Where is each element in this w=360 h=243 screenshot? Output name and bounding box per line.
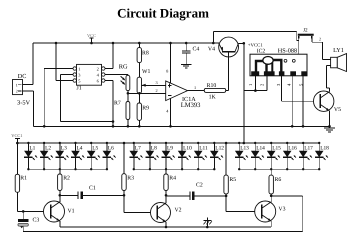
resistor R3 [122,143,134,195]
svg-text:R2: R2 [63,176,70,182]
resistor R10 1K [204,83,225,101]
LED L18 [315,143,329,169]
junction R5 at supply rail [225,142,228,145]
svg-text:J2: J2 [303,27,308,33]
wire: R3 node down to V2 base [124,195,151,212]
svg-text:HS-088: HS-088 [278,47,297,54]
wire: cathode rail group 1 [28,168,107,170]
svg-text:R3: R3 [127,176,134,182]
label IC2 pin numbers [248,83,303,86]
junction L2 anode at supply rail [43,142,45,144]
LED L14 [251,143,265,169]
resistor R7 [114,93,130,126]
junction L15 anode at supply rail [270,142,272,144]
svg-text:1: 1 [16,83,18,88]
svg-text:L4: L4 [77,145,83,151]
junction C3 tap on V1 base line [22,210,25,213]
svg-text:L15: L15 [272,145,281,151]
transistor V5 NPN [314,91,342,113]
svg-text:L18: L18 [320,145,329,151]
svg-text:R4: R4 [169,176,176,182]
speaker LY1 [322,47,346,72]
resistor R4 [164,169,176,195]
svg-text:L9: L9 [167,145,173,151]
svg-text:LY1: LY1 [333,47,344,54]
LED L9 [162,143,175,169]
svg-text:1: 1 [194,85,196,90]
capacitor C2 [166,183,226,201]
junction op-amp pin 8 at VCC rail [169,42,172,45]
junction L1 cathode at group rail [27,168,29,170]
resistor R5 [224,143,236,196]
junction L8 cathode at group rail [149,168,151,170]
junction L5 anode at supply rail [90,142,92,144]
junction VCC1 node [243,42,246,45]
junction J1 pin1 at ground rail [43,125,46,128]
junction R3 at supply rail [123,142,126,145]
svg-text:V1: V1 [68,209,75,215]
LED L4 [71,143,84,169]
LED L10 [178,143,192,169]
svg-text:2: 2 [16,89,18,94]
junction riser at VCC rail [212,42,215,45]
svg-text:C4: C4 [193,46,200,52]
wire: V2 emitter down to line A [165,222,167,227]
wire: op-amp pin 8 to VCC rail [170,43,172,83]
LED L8 [146,143,159,169]
LED L6 [103,143,116,169]
junction R3/C1 node [123,194,126,197]
svg-text:R6: R6 [275,177,282,183]
resistor R2 [58,169,70,195]
wire: op-amp pin 4 to ground rail [170,99,172,127]
wire: DC pin 2 down to ground rail [23,91,34,126]
svg-text:L10: L10 [183,145,192,151]
junction R8 at VCC rail [138,42,141,45]
junction RG/R7 node [127,92,130,95]
junction L7 cathode at group rail [133,168,135,170]
junction R5/C2 node [225,195,228,198]
junction L7 anode at supply rail [133,142,135,144]
wire: VCC1 vertical down to LED supply rail [243,43,245,143]
photoresistor RG [119,64,130,94]
junction V5 emitter at ground rail [328,125,331,128]
junction L9 anode at supply rail [165,142,167,144]
svg-text:L11: L11 [199,145,208,151]
wire: feedback from V3 collector node to line B [271,196,303,232]
wire: J1 pin 5 up to VCC rail [56,43,73,81]
svg-text:1K: 1K [209,94,217,100]
junction L17 cathode at group rail [302,168,304,170]
svg-text:V3: V3 [278,207,285,213]
junction V2 emitter at line A [165,226,168,229]
junction V3 collector node [270,195,273,198]
wire: V5 collector to speaker [326,66,330,92]
junction L2 cathode at group rail [43,168,45,170]
svg-text:L5: L5 [92,145,98,151]
junction L3 anode at supply rail [59,142,61,144]
svg-text:2: 2 [97,66,99,71]
junction IC2 pin4 at ground rail [291,125,294,128]
wire: J1 pin 3 loop to pin 6 column [61,75,113,122]
resistor R1 [15,143,27,211]
wire: emitter line A [60,226,271,228]
junction L18 anode at supply rail [318,142,320,144]
wire: left vertical from rail to DC pin 1 [32,43,34,84]
junction L3 cathode at group rail [59,168,61,170]
wire: IC2 pin 3 to V5 base [281,76,313,101]
DC input connector [13,73,31,106]
wire: J1 pin 1 to ground rail [44,69,73,127]
wire: V3 collector up [270,196,272,202]
junction L11 cathode at group rail [197,168,199,170]
resistor R6 [269,169,281,196]
transistor V2 NPN [151,203,182,223]
junction J1 pin5 at VCC rail [55,42,58,45]
ground symbol on line A [204,218,212,227]
wire: R10 to V4 base [226,53,229,91]
LED L17 [299,143,313,169]
svg-text:L3: L3 [61,145,67,151]
LED L13 [235,143,249,169]
wire: V1 emitter down to line A [59,221,61,227]
wire: riser to J2 feed [213,31,298,43]
junction L16 cathode at group rail [286,168,288,170]
svg-text:C2: C2 [196,183,203,189]
wire: main VCC rail [33,42,219,44]
junction L12 cathode at group rail [213,168,215,170]
wire: J1 pin 4 to RG [105,74,128,76]
wire: J1 pin 6 down to ground rail [105,81,113,127]
junction L18 cathode at group rail [318,168,320,170]
svg-text:J1: J1 [77,86,82,92]
svg-text:C3: C3 [33,218,40,224]
svg-text:3: 3 [156,80,158,85]
svg-text:1: 1 [78,66,80,71]
svg-text:L13: L13 [240,145,249,151]
svg-text:L8: L8 [151,145,157,151]
op-amp IC1A LM393 [166,81,201,109]
junction ground at line A [206,226,209,229]
svg-text:3-5V: 3-5V [17,99,31,106]
junction L6 anode at supply rail [106,142,108,144]
LED L7 [130,143,143,169]
svg-text:L2: L2 [45,145,51,151]
transistor V4 PNP [208,37,239,57]
junction pin6 column and pin3 loop [112,120,115,123]
junction L5 cathode at group rail [90,168,92,170]
wire: base line to V1 [17,210,43,212]
IC J1 oscillator [73,64,105,91]
junction L8 anode at supply rail [149,142,151,144]
LED L16 [283,143,297,169]
junction L17 anode at supply rail [302,142,304,144]
transistor V3 NPN [255,201,286,222]
svg-text:C1: C1 [89,185,96,191]
junction L4 cathode at group rail [74,168,76,170]
LED L3 [56,143,69,169]
wire: J2 right to speaker top lead [312,38,323,59]
junction C4 at VCC rail [185,42,188,45]
junction W1/R9 on inverting wire [138,92,141,95]
svg-text:Circuit Diagram: Circuit Diagram [117,5,209,20]
wire: node 2 to op-amp inverting input [128,92,166,94]
VCC1 power symbol [11,133,22,143]
wire: cathode rail group 3 [239,168,319,170]
junction L15 cathode at group rail [270,168,272,170]
svg-text:R9: R9 [142,106,149,112]
capacitor C1 [60,185,124,199]
junction V2 collector node [165,194,168,197]
transistor V1 NPN [44,201,75,222]
junction IC2 pin1 link [254,89,257,92]
wire: J1 pin 2 up to VCC rail [105,43,113,69]
svg-text:L12: L12 [215,145,224,151]
LED L15 [267,143,281,169]
junction L4 anode at supply rail [74,142,76,144]
junction VCC1 drop at supply rail [243,142,246,145]
svg-text:RG: RG [119,64,128,71]
junction L14 anode at supply rail [254,142,256,144]
junction L6 cathode at group rail [106,168,108,170]
svg-text:L16: L16 [288,145,297,151]
ground rail of top section [34,125,330,127]
wire: feedback line B from C3 to right [23,231,303,233]
svg-text:L6: L6 [108,145,114,151]
ground symbol below C4 [181,64,191,68]
junction L12 anode at supply rail [213,142,215,144]
junction R9 at ground rail [138,125,141,128]
LED L12 [210,143,224,169]
junction IC2 pin5 at ground rail [302,125,305,128]
svg-text:V5: V5 [334,107,341,113]
wire: V1 collector up [59,195,61,202]
junction L10 cathode at group rail [181,168,183,170]
resistor R8 [137,43,149,77]
resistor R9 [137,93,149,126]
svg-text:L1: L1 [29,145,35,151]
svg-text:R1: R1 [20,176,27,182]
wire: IC2 pins 1,2 to VCC1 line [244,76,267,91]
svg-text:DC: DC [18,73,27,80]
wire: cathode rail group 2 [134,168,215,170]
svg-text:LM393: LM393 [181,102,201,109]
wire: J2 left to IC2 top [298,38,300,54]
svg-text:V2: V2 [175,208,182,214]
svg-text:R7: R7 [114,101,121,107]
wire: V3 emitter down to line A [270,221,272,227]
potentiometer W1 [137,69,150,93]
junction L1 anode at supply rail [27,142,29,144]
junction L16 anode at supply rail [286,142,288,144]
svg-text:L17: L17 [304,145,313,151]
svg-text:IC2: IC2 [257,48,266,54]
jumper J2 [298,27,314,38]
wire: DC pin 1 to left vertical [23,83,34,85]
junction J1 pin2 at VCC rail [112,42,115,45]
svg-text:VCC1: VCC1 [11,133,22,138]
svg-text:R8: R8 [142,51,149,57]
svg-text:L7: L7 [135,145,141,151]
wire: V5 emitter to ground rail [329,111,331,127]
wire: LED supply rail [16,142,319,144]
svg-text:R5: R5 [229,177,236,183]
junction VCC1 stub / R1 at supply rail [16,142,19,145]
junction op-amp pin4 at ground rail [169,125,172,128]
junction L9 cathode at group rail [165,168,167,170]
svg-text:L14: L14 [256,145,265,151]
IC2 HS-088 chip [250,47,308,76]
svg-text:V4: V4 [208,47,215,53]
wire: node 3 to op-amp non-inverting input [148,84,166,86]
junction pin6 column at ground rail [112,125,115,128]
LED L1 [24,143,37,169]
svg-text:2: 2 [156,88,158,93]
wire: IC2 pin 4 to ground rail [291,76,293,127]
svg-text:W1: W1 [142,69,150,75]
capacitor C4 [182,43,199,64]
VCC power symbol [87,33,96,43]
junction L13 anode at supply rail [238,142,240,144]
junction L11 anode at supply rail [197,142,199,144]
capacitor C3 electrolytic [18,211,39,231]
junction V1 collector node [59,194,62,197]
junction VCC stub on rail [90,42,93,45]
LED L11 [194,143,208,169]
wire: IC2 pin 5 to ground rail [302,76,304,127]
wire: V2 collector up [165,195,167,203]
wire: R5 node down to V3 base [226,196,255,212]
junction L13 cathode at group rail [238,168,240,170]
svg-text:8: 8 [166,69,168,74]
LED L5 [87,143,100,169]
junction L10 anode at supply rail [181,142,183,144]
wire: V4 collector to VCC1 node [239,42,244,44]
wire: op-amp output pin 1 [188,90,205,92]
ground symbol below V5 [324,126,335,132]
junction R7 at ground rail [127,125,130,128]
LED L2 [40,143,53,169]
junction L14 cathode at group rail [254,168,256,170]
svg-text:2: 2 [319,36,321,41]
svg-text:VCC: VCC [87,33,96,38]
